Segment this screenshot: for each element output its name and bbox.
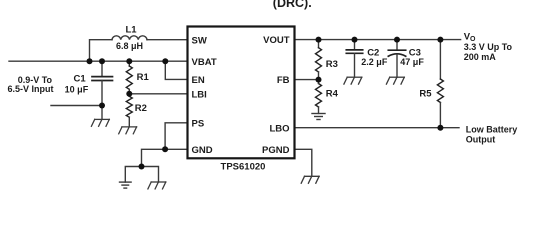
svg-text:R2: R2	[135, 103, 147, 114]
resistor R4	[316, 84, 322, 108]
svg-text:R1: R1	[137, 72, 150, 83]
wire to chassis ground	[142, 167, 159, 182]
wire R3 top stem	[318, 40, 320, 48]
svg-text:R3: R3	[326, 59, 338, 70]
wire to earth ground	[125, 167, 141, 183]
wire PGND branch	[295, 149, 312, 176]
wire C2 bottom stem	[354, 53, 356, 77]
IC U1 TPS61020 box	[188, 27, 295, 159]
resistor R3	[316, 48, 322, 72]
svg-text:200 mA: 200 mA	[464, 52, 497, 62]
wire FB	[295, 79, 319, 81]
svg-text:PS: PS	[192, 119, 205, 130]
ground chassis under PGND	[301, 176, 319, 183]
wire PS branch	[165, 123, 187, 150]
svg-text:47 μF: 47 μF	[400, 57, 424, 67]
svg-text:Output: Output	[466, 134, 496, 144]
svg-text:TPS61020: TPS61020	[221, 162, 266, 173]
wire R2 bottom stem	[128, 117, 130, 127]
wire C1 bottom stem	[101, 81, 103, 120]
wire EN branch	[165, 61, 187, 79]
svg-text:L1: L1	[125, 24, 137, 35]
svg-text:SW: SW	[192, 35, 207, 46]
capacitor C1	[92, 77, 113, 81]
svg-text:2.2 μF: 2.2 μF	[361, 57, 388, 67]
svg-text:VOUT: VOUT	[263, 35, 290, 46]
svg-text:PGND: PGND	[262, 145, 290, 156]
svg-text:6.8 μH: 6.8 μH	[116, 41, 143, 51]
wire input bottom stub	[51, 105, 102, 107]
wire input top rail	[9, 60, 188, 62]
wire C3 top stem	[396, 40, 398, 51]
svg-text:LBI: LBI	[192, 90, 207, 101]
svg-text:GND: GND	[192, 145, 213, 156]
svg-text:C1: C1	[74, 73, 87, 84]
ground chassis under C3	[386, 77, 404, 84]
svg-text:VBAT: VBAT	[192, 57, 217, 68]
svg-text:6.5-V Input: 6.5-V Input	[7, 84, 53, 94]
svg-text:(DRC).: (DRC).	[273, 0, 312, 10]
wire R4 stems	[318, 80, 320, 84]
ground chassis under C2	[344, 77, 362, 84]
ground chassis under R2	[119, 127, 137, 134]
wire C3 bottom stem	[396, 54, 398, 77]
wire LBI	[129, 93, 187, 95]
ground earth under R4	[312, 114, 325, 120]
wire R5 top stem	[439, 40, 441, 79]
resistor R5	[437, 79, 443, 103]
svg-text:EN: EN	[192, 75, 205, 86]
wire R3 bottom stem	[318, 72, 320, 80]
wire SW left segment	[90, 40, 113, 62]
resistor R2	[126, 96, 132, 117]
svg-text:R4: R4	[326, 88, 339, 99]
ground chassis under C1	[91, 119, 109, 126]
resistor R1	[126, 66, 132, 89]
svg-text:LBO: LBO	[269, 123, 289, 134]
wire R1 top stem	[128, 61, 130, 66]
wire R5 bottom stem	[439, 103, 441, 128]
inductor L1	[112, 36, 147, 40]
capacitor C3 polarized	[388, 50, 405, 56]
svg-text:R5: R5	[419, 88, 432, 99]
wire SW right segment	[147, 39, 188, 41]
wire VOUT rail	[295, 39, 461, 41]
capacitor C2	[346, 50, 362, 53]
ground earth bottom-left	[120, 182, 132, 188]
wire R1 bottom stem	[128, 89, 130, 96]
svg-text:3.3 V Up To: 3.3 V Up To	[464, 42, 513, 52]
wire C2 top stem	[354, 40, 356, 50]
wire GND branch	[142, 149, 188, 166]
svg-text:10 μF: 10 μF	[65, 84, 89, 94]
wire LBO	[295, 127, 460, 129]
wire C1 top stem	[101, 61, 103, 76]
svg-text:Low Battery: Low Battery	[466, 124, 518, 134]
svg-text:FB: FB	[277, 75, 290, 86]
ground chassis bottom-center	[148, 182, 166, 189]
